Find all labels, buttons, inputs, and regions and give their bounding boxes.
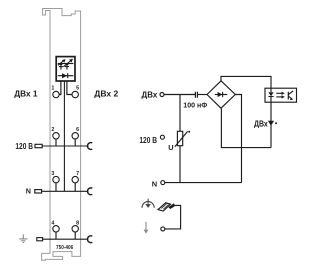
- node DVx input terminal: [160, 93, 164, 97]
- insert direction arrow: [145, 222, 147, 230]
- varistor RU body: [177, 131, 182, 145]
- terminal 6: [72, 133, 78, 139]
- node N terminal: [161, 181, 165, 185]
- module housing outline 750-406: [42, 9, 81, 261]
- svg-text:1: 1: [51, 85, 54, 91]
- wire 120V row: [42, 145, 88, 147]
- svg-text:N: N: [152, 180, 157, 189]
- terminal 1: [53, 91, 59, 97]
- clamp contact 120V row: [35, 144, 42, 147]
- hand tool icon grip: [168, 203, 175, 209]
- svg-text:5: 5: [76, 85, 79, 91]
- wire N row: [42, 190, 89, 192]
- wire manual actuation: [165, 205, 181, 229]
- wire varistor branch lower: [179, 146, 181, 183]
- bridge diode leads: [215, 94, 228, 96]
- svg-text:750-406: 750-406: [56, 245, 74, 251]
- svg-text:ДВх 1: ДВх 1: [14, 88, 38, 98]
- capacitor C 100nF plates: [195, 92, 197, 98]
- wire N line: [165, 182, 242, 184]
- svg-text:ДВх: ДВх: [142, 89, 158, 99]
- wire stub terminal 7: [74, 183, 76, 192]
- wire varistor branch upper: [179, 95, 181, 132]
- wire bridge bottom return: [221, 108, 271, 147]
- LED D1: [59, 64, 63, 67]
- clamp contact N row: [35, 190, 42, 193]
- terminal 4: [53, 226, 59, 232]
- wire stub terminal 6: [74, 139, 76, 146]
- wire stub terminal 4: [55, 232, 57, 239]
- svg-text:8: 8: [76, 221, 79, 227]
- svg-text:2: 2: [51, 127, 54, 133]
- node manual contact: [161, 227, 165, 231]
- svg-text:120 В: 120 В: [139, 135, 157, 145]
- actuator dome symbol: [142, 202, 154, 208]
- ground symbol: [19, 234, 27, 242]
- wire bridge right to N: [235, 95, 241, 183]
- terminal 3: [53, 176, 59, 182]
- terminal 7: [72, 176, 78, 182]
- optocoupler U1 box: [265, 88, 297, 102]
- svg-text:N: N: [26, 187, 31, 196]
- terminal 8: [72, 226, 78, 232]
- LED indicator box: [56, 57, 75, 81]
- diode in LED box: [58, 75, 74, 77]
- clamp contact earth row: [37, 238, 43, 241]
- svg-text:U: U: [168, 143, 173, 152]
- wire earth row: [43, 238, 89, 240]
- svg-text:ДВх: ДВх: [254, 118, 268, 128]
- wire DVx to capacitor: [164, 94, 195, 96]
- optocoupler LED: [270, 88, 272, 92]
- wire internal bus line: [63, 82, 65, 192]
- wire stub box to terminal 5: [67, 81, 72, 94]
- power jumper contact 120V row: [88, 143, 93, 150]
- wire bridge top to optocoupler: [221, 76, 271, 88]
- varistor arrow: [175, 131, 188, 146]
- svg-text:3: 3: [51, 171, 54, 177]
- bridge diode: [218, 92, 223, 97]
- optocoupler phototransistor: [287, 92, 289, 100]
- svg-text:7: 7: [76, 171, 79, 177]
- svg-text:120 В: 120 В: [15, 141, 33, 151]
- wire stub terminal 8: [74, 232, 76, 239]
- terminal 5: [72, 91, 78, 97]
- wire capacitor to bridge: [198, 94, 207, 96]
- power jumper contact earth row: [88, 236, 93, 243]
- power jumper contact N row: [88, 188, 93, 195]
- LED emission arrow 1: [58, 61, 64, 66]
- signal arrow on output wire: [268, 121, 274, 126]
- terminal 2: [53, 133, 59, 139]
- svg-text:ДВх 2: ДВх 2: [94, 88, 118, 98]
- hand tool icon blade: [158, 203, 171, 211]
- bridge rectifier diamond: [207, 81, 235, 108]
- svg-text:6: 6: [76, 127, 79, 133]
- svg-text:4: 4: [51, 221, 54, 227]
- node 120V terminal: [160, 135, 164, 139]
- wire stub terminal 2: [55, 139, 57, 146]
- optocoupler coupling arrows: [276, 92, 282, 94]
- asterisk output: [275, 122, 277, 124]
- LED D2: [65, 64, 69, 67]
- LED anode line: [58, 63, 74, 65]
- svg-text:100 нФ: 100 нФ: [183, 101, 208, 110]
- wire stub terminal 3: [55, 183, 57, 192]
- wire optocoupler output: [270, 102, 272, 147]
- varistor asterisk mark: [188, 131, 190, 133]
- wire stub box to terminal 1: [59, 81, 61, 94]
- LED emission arrow 2: [63, 61, 71, 67]
